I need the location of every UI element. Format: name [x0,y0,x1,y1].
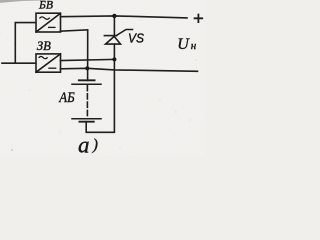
svg-text:БВ: БВ [38,0,54,11]
svg-text:АБ: АБ [58,90,74,106]
svg-text:ЗВ: ЗВ [37,38,51,53]
svg-text:VS: VS [128,30,144,45]
svg-text:н: н [191,40,197,52]
svg-text:а: а [78,133,90,157]
svg-text:): ) [92,137,98,154]
svg-text:U: U [177,36,190,53]
